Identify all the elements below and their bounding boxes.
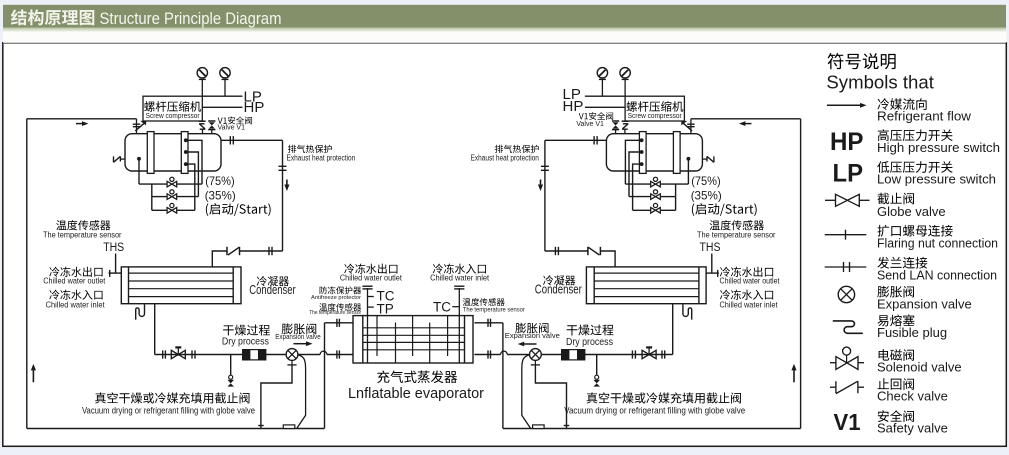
- sight box L: [283, 425, 295, 429]
- valve 35 percent R: [651, 190, 661, 200]
- label HP R: [563, 98, 584, 115]
- flange globe left R: [662, 350, 665, 358]
- baffle 2 R: [639, 132, 646, 174]
- label TC right: [433, 300, 451, 315]
- label LP L: [244, 89, 262, 106]
- valve check L: [227, 247, 240, 255]
- bulb capillary L: [297, 355, 306, 428]
- flange condenser line L: [269, 247, 272, 255]
- header bar: [3, 5, 1006, 43]
- wire liquid drop L: [154, 304, 156, 355]
- legend globe valve symbol: [825, 194, 870, 206]
- label screw compressor R: [626, 101, 683, 120]
- valve suction service L: [133, 119, 146, 134]
- legend label expansion: [877, 286, 972, 311]
- label chw inlet R: [720, 290, 779, 310]
- wire discharge R: [545, 139, 607, 141]
- svg-text:LP: LP: [833, 160, 864, 188]
- wire drain to row1 L: [138, 159, 140, 184]
- valve expansion L: [286, 349, 298, 365]
- flange water outlet: [362, 286, 372, 289]
- tick equalizer end R: [564, 425, 570, 427]
- header title: [11, 9, 282, 27]
- arrow expansion R: [518, 342, 537, 347]
- svg-text:Condenser: Condenser: [535, 283, 582, 297]
- wire LP line R: [585, 95, 625, 97]
- gauge HP R: [620, 68, 630, 97]
- label chw outlet L: [43, 267, 106, 286]
- flange discharge drop L: [279, 166, 287, 170]
- label evap chw outlet: [340, 264, 403, 283]
- svg-text:(75%): (75%): [205, 174, 235, 188]
- wire tapstart R: [633, 164, 642, 210]
- wire liquid drop R: [672, 304, 674, 355]
- node tap 75 L: [184, 138, 188, 142]
- wire bottom L: [27, 428, 325, 430]
- svg-text:Send LAN connection: Send LAN connection: [877, 267, 997, 282]
- pipe hop L: [320, 351, 327, 354]
- svg-text:Chilled water inlet: Chilled water inlet: [720, 300, 779, 310]
- tick equalizer end L: [258, 425, 264, 427]
- label 75 L: [205, 174, 235, 188]
- tick TP left: [368, 306, 374, 308]
- svg-text:Refrigerant flow: Refrigerant flow: [877, 108, 972, 123]
- wire condenser inlet L: [212, 251, 282, 267]
- label evaporator: [348, 371, 484, 402]
- wire evaporator top port L: [325, 322, 354, 324]
- svg-text:Valve V1: Valve V1: [576, 121, 604, 128]
- wire tap75 L: [186, 140, 202, 184]
- svg-text:The temperature sensor: The temperature sensor: [697, 230, 776, 239]
- legend label flaring: [877, 225, 998, 250]
- filter drier L: [243, 350, 266, 360]
- node tap start L: [184, 162, 188, 166]
- valve 75 percent R: [651, 177, 661, 187]
- condenser cap lines R: [594, 267, 699, 304]
- flange discharge L: [230, 136, 233, 144]
- label LP R: [563, 86, 581, 103]
- pipe hop R: [501, 351, 508, 354]
- label dry process R: [566, 324, 614, 347]
- wire discharge drop R: [544, 140, 546, 251]
- label TP left: [377, 302, 394, 317]
- legend expansion symbol: [838, 286, 854, 302]
- label TC left: [377, 288, 395, 303]
- svg-text:Safety valve: Safety valve: [877, 421, 948, 436]
- valve charge R: [593, 375, 600, 386]
- valve 75 percent L: [167, 177, 177, 187]
- node tap 35 L: [184, 150, 188, 154]
- compressor box U1 L: [143, 96, 202, 121]
- label antifreeze: [311, 286, 361, 301]
- wire suction riser L: [26, 119, 28, 429]
- node tap start R: [640, 162, 644, 166]
- wire row3 L: [152, 209, 195, 211]
- wire evaporator top port R: [474, 322, 503, 324]
- label temp sensor L: [43, 220, 122, 239]
- wire equalizer R: [535, 365, 566, 429]
- valve charge L: [227, 375, 234, 386]
- wire evaporator feed riser L: [324, 323, 326, 429]
- svg-text:HP: HP: [244, 99, 265, 116]
- flange globe right L: [192, 350, 195, 358]
- svg-text:(35%): (35%): [691, 188, 722, 202]
- svg-text:Expansion valve: Expansion valve: [275, 332, 321, 341]
- flow arrow discharge L: [284, 180, 289, 192]
- svg-text:Vacuum drying or refrigerant f: Vacuum drying or refrigerant filling wit…: [82, 406, 255, 416]
- svg-text:Exhaust heat protection: Exhaust heat protection: [471, 153, 539, 162]
- condenser shell L: [121, 267, 241, 304]
- wire suction riser R: [800, 119, 802, 429]
- wire row left riser L: [151, 184, 153, 210]
- wire liquid line R: [474, 354, 672, 356]
- svg-text:Symbols that: Symbols that: [826, 72, 934, 93]
- wire tapstart L: [186, 164, 195, 210]
- label temp sensor evap L: [309, 303, 361, 316]
- flange discharge R: [594, 136, 597, 144]
- valve globe liquid R: [642, 346, 656, 358]
- wire row3 R: [633, 209, 676, 211]
- tick TC left: [368, 296, 374, 298]
- svg-text:HP: HP: [830, 128, 864, 156]
- label condenser R: [535, 275, 582, 296]
- svg-text:(35%): (35%): [205, 188, 236, 202]
- wire equalizer L: [261, 365, 292, 429]
- svg-text:Valve V1: Valve V1: [218, 124, 246, 131]
- svg-text:Screw compressor: Screw compressor: [146, 113, 201, 120]
- vessel oil separator R: [606, 134, 702, 171]
- label condenser L: [249, 276, 295, 297]
- flange condenser line R: [555, 247, 558, 255]
- vessel oil separator L: [125, 134, 221, 171]
- baffle 2 L: [181, 132, 188, 174]
- wire suction top R: [691, 118, 801, 120]
- svg-text:Exhaust heat protection: Exhaust heat protection: [287, 153, 356, 162]
- label exhaust R: [471, 145, 539, 163]
- fusible plug condenser R: [683, 304, 692, 319]
- flange globe right R: [632, 350, 635, 358]
- legend heading: [826, 53, 934, 92]
- wire row2 R: [629, 196, 676, 198]
- valve V1 safety L: [208, 121, 215, 133]
- wire row2 L: [152, 196, 199, 198]
- evaporator tubes: [363, 328, 465, 350]
- valve relief Z R: [622, 121, 629, 133]
- THS probe L: [109, 254, 122, 277]
- legend label HP: [877, 129, 1000, 155]
- node tap 35 R: [640, 150, 644, 154]
- flange evap top port L: [337, 319, 340, 327]
- label evap chw inlet: [430, 264, 490, 283]
- svg-text:Low pressure switch: Low pressure switch: [877, 171, 996, 186]
- legend HP: [830, 128, 864, 156]
- wire HP line R: [585, 106, 625, 108]
- wire drain to row1 R: [687, 159, 689, 184]
- svg-text:The temperature sensor: The temperature sensor: [309, 310, 361, 316]
- flow arrow suction L: [76, 121, 89, 126]
- svg-text:High pressure switch: High pressure switch: [877, 140, 1000, 155]
- svg-text:Dry process: Dry process: [566, 336, 613, 348]
- evaporator shell: [353, 316, 473, 363]
- flange evap top port R: [488, 319, 491, 327]
- wire charge branch R: [596, 355, 598, 376]
- legend label refrigerant flow: [877, 98, 972, 123]
- valve check R: [588, 247, 601, 255]
- svg-text:(75%): (75%): [691, 174, 721, 188]
- svg-text:Condenser: Condenser: [249, 283, 295, 297]
- wire bottom R: [503, 428, 801, 430]
- label V1 valve R: [576, 112, 613, 128]
- node oil drain R: [687, 157, 691, 161]
- svg-text:Expansion valve: Expansion valve: [505, 331, 560, 340]
- wire tap35 L: [186, 152, 199, 197]
- node tap 75 R: [640, 138, 644, 142]
- flange water inlet: [454, 286, 464, 289]
- label dry process L: [222, 325, 270, 348]
- label temp sensor R: [697, 220, 776, 239]
- arrow expansion L: [294, 341, 313, 346]
- svg-text:The temperature sensor: The temperature sensor: [43, 230, 122, 239]
- wire row left riser R: [675, 184, 677, 210]
- chilled water inlet pipe: [458, 288, 460, 363]
- valve expansion R: [530, 349, 542, 365]
- valve relief Z L: [199, 121, 206, 133]
- svg-text:Screw compressor: Screw compressor: [628, 113, 683, 120]
- svg-text:Vacuum drying or refrigerant f: Vacuum drying or refrigerant filling wit…: [564, 406, 745, 416]
- evaporator cap lines: [363, 316, 465, 363]
- condenser cap lines L: [129, 267, 234, 304]
- legend label safety: [877, 410, 948, 436]
- flange evap bottom port R: [488, 350, 491, 358]
- wire row1 L: [139, 183, 202, 185]
- gauge LP L: [220, 68, 230, 97]
- condenser tubes R: [594, 273, 699, 297]
- wire suction top L: [27, 118, 137, 120]
- valve 35 percent L: [167, 190, 177, 200]
- flow arrow riser L: [31, 364, 36, 382]
- compressor box U1 R: [625, 96, 684, 121]
- flow arrow riser R: [791, 364, 796, 382]
- label start L: [206, 203, 271, 216]
- legend LP: [833, 160, 864, 188]
- valve suction service R: [681, 119, 694, 134]
- label exhaust L: [287, 145, 356, 163]
- svg-text:Expansion valve: Expansion valve: [877, 296, 972, 311]
- legend flaring symbol: [825, 230, 867, 240]
- baffle 1 R: [673, 132, 680, 174]
- label start R: [692, 203, 757, 216]
- legend label solenoid: [877, 349, 962, 374]
- label chw outlet R: [720, 267, 781, 286]
- valve start L: [167, 203, 177, 213]
- valve V1 safety R: [612, 121, 619, 133]
- svg-text:Lnflatable evaporator: Lnflatable evaporator: [348, 385, 484, 402]
- legend label flange: [877, 257, 997, 283]
- wire discharge drop L: [282, 140, 284, 251]
- label vacuum R: [564, 392, 745, 415]
- svg-text:V1: V1: [834, 409, 861, 435]
- condenser tubes L: [129, 273, 234, 297]
- label V1 valve L: [218, 116, 253, 131]
- label expansion L: [275, 323, 321, 341]
- condenser shell R: [586, 267, 706, 304]
- chilled water outlet pipe: [367, 288, 369, 363]
- filter drier R: [562, 350, 585, 360]
- legend flange symbol: [825, 262, 867, 272]
- wire tap35 R: [629, 152, 642, 197]
- legend solenoid symbol: [830, 347, 864, 369]
- svg-text:THS: THS: [700, 242, 721, 254]
- flange discharge drop R: [541, 166, 549, 170]
- svg-text:Chilled water outlet: Chilled water outlet: [340, 272, 403, 282]
- legend label check: [877, 378, 948, 403]
- gauge HP L: [197, 68, 207, 97]
- wire charge branch L: [230, 355, 232, 376]
- svg-text:Check valve: Check valve: [877, 388, 948, 403]
- tick TC right: [452, 306, 459, 308]
- label screw compressor L: [144, 101, 201, 120]
- flow arrow suction R: [739, 121, 752, 126]
- valve globe liquid L: [171, 346, 185, 358]
- sight box R: [533, 425, 545, 429]
- svg-text:THS: THS: [103, 242, 124, 254]
- legend arrow refrigerant flow: [827, 103, 867, 108]
- svg-text:Globe valve: Globe valve: [877, 204, 946, 219]
- legend label LP: [877, 161, 996, 186]
- svg-text:Chilled water inlet: Chilled water inlet: [46, 300, 106, 310]
- svg-text:HP: HP: [563, 98, 584, 115]
- legend V1: [834, 409, 861, 435]
- label vacuum L: [82, 392, 255, 415]
- wire liquid line L: [155, 354, 353, 356]
- valve start R: [651, 203, 661, 213]
- label THS L: [103, 242, 124, 254]
- legend label globe valve: [877, 193, 946, 219]
- label temp sensor evap R: [463, 298, 525, 314]
- flange globe left L: [163, 350, 166, 358]
- legend check symbol: [830, 381, 864, 393]
- svg-text:The temperature sensor: The temperature sensor: [463, 308, 525, 314]
- label chw inlet L: [46, 290, 106, 310]
- svg-text:TP: TP: [377, 302, 394, 317]
- fusible plug condenser L: [136, 304, 145, 319]
- wire tap75 R: [625, 140, 641, 184]
- svg-text:Structure Principle Diagram: Structure Principle Diagram: [100, 10, 282, 28]
- label THS R: [700, 242, 721, 254]
- svg-text:Flaring nut connection: Flaring nut connection: [877, 235, 998, 250]
- evaporator coils: [377, 316, 448, 363]
- legend fusible symbol: [833, 321, 863, 333]
- svg-text:Chilled water outlet: Chilled water outlet: [720, 276, 781, 286]
- svg-text:Chilled water outlet: Chilled water outlet: [43, 276, 106, 286]
- label HP L: [244, 99, 265, 116]
- label 35 L: [205, 188, 236, 202]
- svg-text:Fusible plug: Fusible plug: [877, 325, 947, 340]
- fusible plug vessel R: [702, 156, 714, 162]
- wire condenser inlet R: [545, 251, 615, 267]
- svg-text:Solenoid valve: Solenoid valve: [877, 360, 962, 375]
- node oil drain L: [137, 157, 141, 161]
- gauge LP R: [597, 68, 607, 97]
- wire HP line L: [202, 106, 242, 108]
- svg-text:Dry process: Dry process: [222, 336, 269, 348]
- legend label fusible: [877, 315, 947, 340]
- wire LP line L: [202, 95, 242, 97]
- flow arrow discharge R: [538, 180, 543, 192]
- label expansion R: [505, 323, 560, 340]
- flange evap bottom port L: [337, 350, 340, 358]
- baffle 1 L: [147, 132, 154, 174]
- label 75 R: [691, 174, 721, 188]
- THS probe R: [706, 254, 719, 277]
- fusible plug vessel L: [114, 156, 126, 162]
- wire evaporator feed riser R: [502, 323, 504, 429]
- svg-text:TC: TC: [433, 300, 451, 315]
- label 35 R: [691, 188, 722, 202]
- svg-text:Antifreeze protector: Antifreeze protector: [311, 295, 361, 301]
- bulb capillary R: [522, 355, 531, 428]
- wire row1 R: [625, 183, 688, 185]
- svg-text:Chilled water inlet: Chilled water inlet: [430, 272, 490, 282]
- wire discharge L: [221, 139, 283, 141]
